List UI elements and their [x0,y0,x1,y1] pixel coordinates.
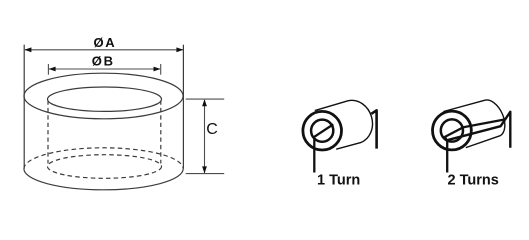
svg-text:ØB: ØB [92,53,115,68]
svg-text:2 Turns: 2 Turns [448,173,499,189]
svg-text:1 Turn: 1 Turn [317,173,360,189]
svg-text:C: C [206,121,218,138]
svg-text:ØA: ØA [94,35,117,50]
